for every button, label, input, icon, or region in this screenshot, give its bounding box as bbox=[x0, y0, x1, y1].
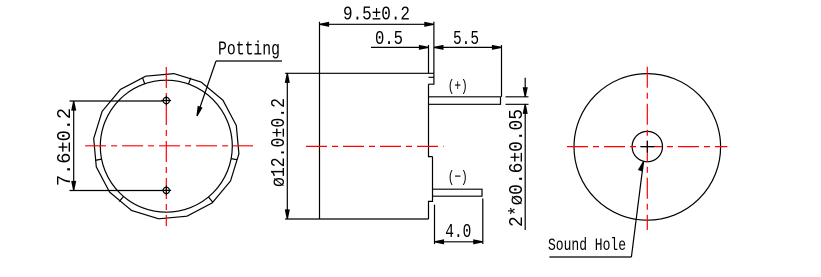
middle view: body bottom edge bbox=[285, 218, 428, 220]
svg-text:2*ø0.6±0.05: 2*ø0.6±0.05 bbox=[506, 109, 528, 227]
arrow down 7.6 bbox=[72, 182, 76, 191]
svg-text:ø12.0±0.2: ø12.0±0.2 bbox=[268, 98, 290, 187]
left view: red vertical centerline bbox=[165, 67, 167, 226]
pin (-) outline bbox=[433, 189, 483, 196]
arrow down 2*ø0.6 bbox=[523, 88, 527, 97]
dim 4.0 ext lines bbox=[435, 199, 483, 245]
right view: red vertical centerline bbox=[646, 67, 648, 230]
middle view: right tab bbox=[429, 73, 434, 84]
arrow down ø12 bbox=[286, 210, 290, 219]
svg-text:9.5±0.2: 9.5±0.2 bbox=[343, 4, 410, 26]
dim 4.0 line bbox=[435, 241, 483, 243]
svg-text:Sound Hole: Sound Hole bbox=[548, 236, 626, 256]
svg-text:Potting: Potting bbox=[218, 39, 280, 61]
dim 5.5 line bbox=[434, 46, 502, 48]
ext line 0.5 bbox=[428, 45, 430, 73]
svg-text:5.5: 5.5 bbox=[453, 28, 479, 50]
pin (+) outline bbox=[429, 97, 501, 105]
svg-text:7.6±0.2: 7.6±0.2 bbox=[54, 108, 76, 186]
dim 2*ø0.6 ext lines bbox=[506, 97, 529, 105]
arrow left 5.5 bbox=[434, 46, 443, 50]
Potting leader bbox=[197, 61, 216, 116]
dim ø12 line bbox=[286, 73, 288, 219]
Sound Hole underline bbox=[549, 256, 631, 258]
svg-text:(+): (+) bbox=[448, 78, 468, 96]
dim 9.5 line bbox=[320, 23, 434, 25]
right view: sound hole circle bbox=[632, 131, 662, 161]
arrow right 4.0 bbox=[474, 240, 483, 244]
dim 2*ø0.6 line bbox=[524, 78, 526, 230]
left view: inner circle bbox=[100, 80, 232, 212]
arrow up ø12 bbox=[286, 73, 290, 82]
right view: red horizontal centerline bbox=[567, 146, 727, 148]
middle view: right edge lower bbox=[429, 157, 433, 219]
middle view: right edge upper bbox=[429, 84, 433, 156]
dim 9.5 ext lines bbox=[320, 22, 434, 74]
left view: red horizontal centerline bbox=[85, 145, 253, 147]
arrow right 5.5 bbox=[493, 46, 502, 50]
pin hole top bbox=[163, 97, 169, 103]
ext line 5.5 right bbox=[501, 45, 503, 97]
svg-text:4.0: 4.0 bbox=[445, 221, 471, 243]
right view: outer circle bbox=[574, 74, 721, 221]
arrow left 4.0 bbox=[435, 240, 444, 244]
arrow up 2*ø0.6 bbox=[523, 104, 527, 113]
arrow 0.5 bbox=[420, 46, 429, 50]
svg-text:(−): (−) bbox=[448, 168, 468, 186]
Sound Hole leader arrow bbox=[639, 162, 644, 171]
right view: black center mark bbox=[640, 141, 654, 153]
left view: crimp seam ticks bbox=[95, 78, 238, 203]
arrow up 7.6 bbox=[72, 101, 76, 110]
svg-text:0.5: 0.5 bbox=[375, 28, 403, 50]
dimension 7.6 line bbox=[73, 101, 75, 191]
middle view: body top edge bbox=[285, 72, 434, 74]
middle view: red centerline bbox=[306, 145, 444, 147]
arrow right 9.5 bbox=[425, 23, 434, 27]
Sound Hole leader bbox=[631, 162, 643, 258]
middle view: body left edge bbox=[319, 73, 321, 219]
Potting underline bbox=[216, 60, 282, 62]
Potting leader arrow bbox=[197, 107, 202, 116]
dim 0.5 line bbox=[371, 46, 429, 48]
pin hole bottom bbox=[163, 187, 169, 193]
dimension 7.6 extension lines bbox=[70, 101, 163, 191]
arrow left 9.5 bbox=[320, 23, 329, 27]
left view: outer case circle (faceted) bbox=[94, 74, 239, 219]
